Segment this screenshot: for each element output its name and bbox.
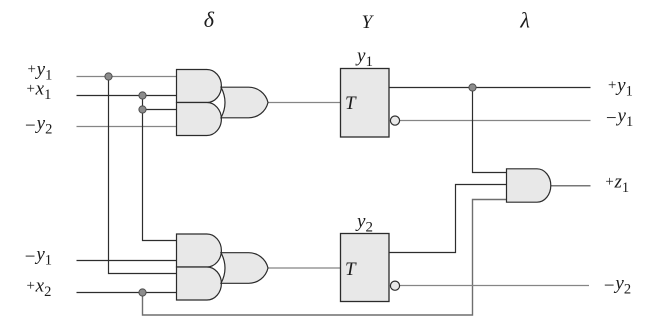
svg-text:δ: δ (204, 7, 215, 32)
junction dot on +x1 (139, 92, 146, 99)
wire branch from +y1 down to AND4 (109, 77, 177, 274)
flip-flop U2 inverted output bubble (390, 281, 399, 290)
or-gate O2 (221, 253, 268, 284)
wire OR1 output to FF1 (268, 102, 341, 104)
wire input +x1 (77, 95, 177, 97)
flip-flop U2 body (341, 234, 390, 302)
svg-text:λ: λ (519, 7, 530, 32)
flip-flop U1 inverted output bubble (390, 116, 399, 125)
wire AND5 output to +z1 (551, 185, 591, 187)
or-gate O1 (221, 87, 268, 118)
wire input -y1 (77, 260, 177, 262)
and-gate A1 (177, 70, 222, 103)
wire FF2 Q output up to AND5 middle input (389, 185, 507, 253)
junction dot on AND2 branch (139, 106, 146, 113)
junction dot on FF1 Q output (469, 84, 476, 91)
and-gate A2 (177, 103, 222, 136)
junction dot on +x2 (139, 289, 146, 296)
wire input +x2 (77, 292, 177, 294)
wire FF2 Qbar output to -y2 (399, 285, 589, 287)
wire branch from +x1 to AND2 input (143, 109, 177, 111)
and-gate A5 (507, 169, 551, 202)
wire input -y2 (77, 126, 177, 128)
flip-flop U1 body (341, 69, 390, 138)
svg-text:T: T (345, 93, 357, 114)
svg-text:T: T (345, 259, 357, 280)
and-gate A3 (177, 234, 222, 267)
wire branch from +x1 down to AND3 (143, 96, 177, 241)
wire OR2 output to FF2 (268, 267, 341, 269)
wire FF1 Q output to +y1 (389, 87, 591, 89)
wire input +y1 (77, 76, 177, 78)
and-gate A4 (177, 267, 222, 300)
wire branch from +x2 along bottom to AND5 (143, 200, 508, 316)
junction dot on +y1 (105, 73, 112, 80)
wire from FF1 Q junction down to AND5 top input (473, 88, 508, 173)
wire FF1 Qbar output to -y1 (399, 120, 591, 122)
